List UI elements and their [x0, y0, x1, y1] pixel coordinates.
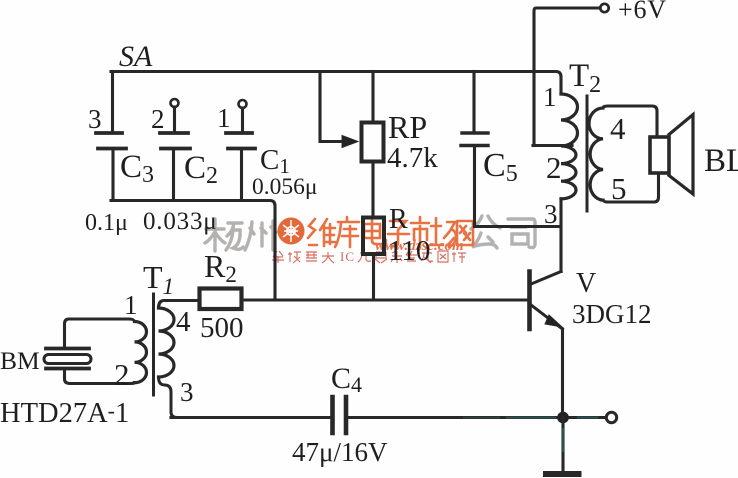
- wire SA pos3 stub: [111, 72, 114, 132]
- piezo BM bottom plate: [46, 367, 89, 371]
- svg-text:1: 1: [124, 290, 138, 320]
- wire +6V feed: [533, 8, 600, 146]
- svg-text:BL: BL: [704, 143, 738, 179]
- svg-text:T1: T1: [143, 259, 174, 299]
- svg-text:3: 3: [180, 377, 194, 407]
- wire C5 to collector: [475, 225, 561, 228]
- watermark gray char gong: [471, 216, 500, 248]
- watermark gray char zhou: [245, 221, 276, 250]
- wire C5 bottom stub: [473, 148, 476, 226]
- svg-text:1: 1: [217, 103, 231, 133]
- switch SA contact 1 bar: [226, 131, 252, 135]
- potentiometer RP: [362, 123, 384, 162]
- svg-text:3DG12: 3DG12: [572, 299, 652, 329]
- wire bottom rail right: [348, 416, 606, 419]
- watermark orange char ku: [335, 217, 359, 247]
- capacitor C2: [161, 147, 190, 151]
- node pos1 terminal circle: [239, 100, 247, 108]
- node output terminal circle: [606, 412, 616, 422]
- wire bottom cap bus to base line: [111, 201, 275, 299]
- speaker BL driver: [650, 137, 669, 173]
- switch SA contact 3 bar: [96, 131, 122, 135]
- node emitter junction: [558, 412, 569, 423]
- transformer T2 core: [586, 96, 589, 211]
- svg-text:V: V: [576, 268, 596, 299]
- wire T1 primary bottom to BM: [65, 372, 135, 384]
- watermark orange char wei: [308, 219, 335, 246]
- transformer T1 core: [152, 294, 155, 395]
- piezo BM element: [44, 355, 91, 364]
- svg-text:SA: SA: [119, 40, 153, 73]
- svg-text:RP: RP: [388, 109, 427, 145]
- capacitor C4: [333, 397, 347, 433]
- transistor V collector lead: [531, 272, 561, 285]
- svg-text:C4: C4: [331, 362, 362, 397]
- svg-text:0.033μ: 0.033μ: [143, 208, 217, 235]
- wire base lead: [242, 298, 529, 301]
- svg-text:BM: BM: [0, 346, 40, 375]
- svg-text:C1: C1: [260, 144, 290, 178]
- resistor R2: [200, 289, 242, 310]
- svg-text:HTD27A-1: HTD27A-1: [0, 398, 129, 429]
- svg-text:C5: C5: [483, 147, 518, 187]
- svg-text:3: 3: [88, 104, 102, 134]
- svg-text:1: 1: [543, 82, 557, 112]
- transistor V base bar: [527, 272, 532, 330]
- wire C1 bottom stub: [240, 150, 243, 200]
- transformer T1 primary winding: [135, 322, 147, 383]
- wiper arrowhead: [342, 136, 358, 148]
- svg-text:4.7k: 4.7k: [387, 142, 438, 174]
- wire T2 secondary bottom to speaker: [603, 173, 659, 202]
- svg-text:5: 5: [611, 171, 627, 206]
- transistor V emitter lead: [531, 305, 563, 329]
- wire bottom rail left: [171, 416, 330, 419]
- watermark orange char dian: [364, 218, 386, 244]
- svg-text:R: R: [389, 204, 408, 235]
- watermark orange char zi: [388, 221, 409, 246]
- speaker BL horn: [669, 115, 693, 195]
- svg-text:T2: T2: [569, 58, 601, 98]
- wire C5 top stub: [472, 72, 475, 132]
- watermark orange char wang: [457, 221, 473, 245]
- wire R bottom stem: [372, 254, 375, 299]
- svg-text:+6V: +6V: [618, 0, 667, 24]
- wire emitter down: [561, 329, 564, 417]
- switch SA contact 2 bar: [160, 131, 188, 135]
- svg-text:0.056μ: 0.056μ: [252, 174, 317, 200]
- svg-text:R2: R2: [204, 248, 237, 287]
- capacitor C5: [461, 133, 488, 146]
- watermark logo circle: [278, 218, 305, 245]
- wire ground stub: [561, 418, 564, 472]
- watermark orange char shi: [411, 217, 429, 247]
- wire T1 primary top to BM: [65, 319, 135, 346]
- svg-text:4: 4: [610, 111, 626, 146]
- svg-text:2: 2: [546, 150, 562, 185]
- watermark gray char hang: [205, 219, 243, 251]
- svg-text:4: 4: [176, 306, 191, 338]
- ground: [546, 471, 579, 477]
- svg-text:C3: C3: [120, 149, 154, 188]
- svg-text:2: 2: [151, 104, 165, 134]
- capacitor C3: [98, 147, 126, 151]
- transformer T2 secondary winding: [589, 108, 603, 200]
- wire T1 pin4 to R2: [159, 301, 200, 309]
- piezo BM top plate: [46, 347, 89, 351]
- svg-text:110: 110: [388, 235, 430, 267]
- wire T2 pin3 to collector: [559, 199, 562, 272]
- wire RP to R stem: [371, 162, 374, 218]
- wire T2 secondary top to speaker: [603, 106, 657, 137]
- node pos2 terminal circle: [171, 99, 179, 107]
- transformer T2 primary winding: [561, 94, 578, 199]
- wire C3 bottom stub: [111, 150, 114, 200]
- svg-text:IC: IC: [340, 249, 355, 264]
- wire pos2 stub: [173, 107, 176, 131]
- svg-text:500: 500: [200, 312, 244, 344]
- transformer T1 secondary winding: [159, 308, 175, 377]
- resistor R: [363, 218, 384, 255]
- svg-text:2: 2: [114, 357, 130, 392]
- watermark red slogan: [272, 251, 334, 263]
- wire RP top stem: [371, 72, 374, 123]
- watermark gray char si: [508, 219, 535, 248]
- wire RP wiper branch: [320, 72, 342, 142]
- emitter arrowhead: [545, 315, 562, 327]
- svg-text:C2: C2: [184, 150, 218, 189]
- wire pos1 stub: [241, 108, 244, 131]
- wire C2 bottom stub: [172, 150, 175, 200]
- watermark teal tint on wires: [463, 418, 598, 453]
- capacitor C1: [228, 147, 255, 151]
- svg-text:3: 3: [544, 199, 558, 229]
- wire top SA bus: [111, 72, 561, 95]
- svg-text:0.1μ: 0.1μ: [85, 210, 128, 236]
- watermark orange char chang: [431, 218, 456, 247]
- wire T1 pin3 down: [159, 377, 178, 418]
- node +6V terminal circle: [600, 4, 608, 12]
- svg-text:47μ/16V: 47μ/16V: [292, 437, 388, 467]
